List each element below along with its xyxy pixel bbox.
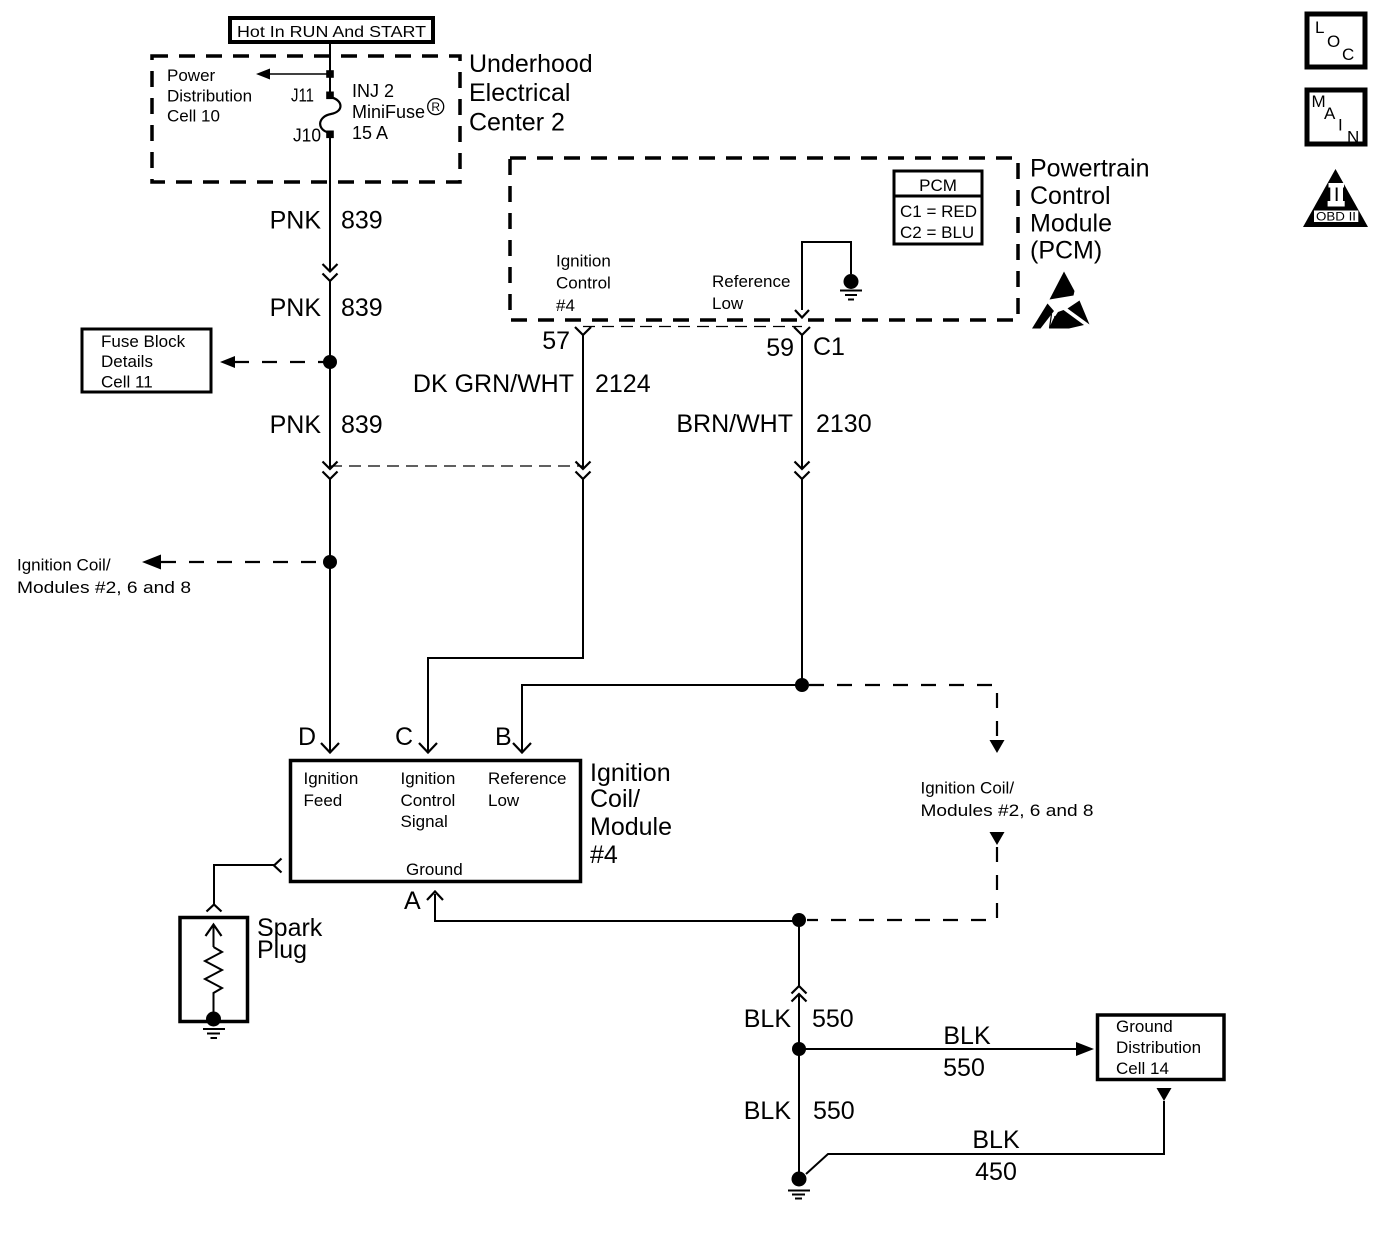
in-line connector on PNK wire: [323, 264, 338, 281]
svg-text:Low: Low: [488, 791, 520, 810]
svg-text:Electrical: Electrical: [469, 79, 570, 107]
svg-text:Control: Control: [401, 791, 456, 810]
label Spark Plug: [257, 914, 323, 964]
arrow inside spark plug: [206, 925, 222, 948]
fuse INJ 2 MiniFuse 15 A: [320, 97, 340, 133]
PCM connector legend box: [894, 171, 982, 244]
dashed connector line between PNK and DK GRN wires: [330, 465, 583, 467]
svg-text:839: 839: [341, 207, 383, 235]
svg-text:Ground: Ground: [1116, 1017, 1173, 1036]
label Ignition Coil Module #4: [590, 759, 672, 869]
wire spark plug feed from coil: [207, 859, 282, 912]
svg-text:#4: #4: [590, 841, 618, 869]
arrowhead into pin B: [513, 743, 531, 753]
svg-text:Ignition Coil/: Ignition Coil/: [17, 556, 111, 575]
label Ignition Coil Modules 2 6 and 8 (left): [17, 556, 191, 598]
svg-text:Cell 10: Cell 10: [167, 107, 220, 126]
wire arrow to Power Distribution Cell 10: [256, 69, 330, 80]
svg-text:O: O: [1327, 32, 1340, 51]
svg-text:BRN/WHT: BRN/WHT: [676, 410, 793, 438]
wire PNK 839 from fuse to connector: [329, 134, 331, 271]
svg-text:N: N: [1347, 128, 1359, 147]
svg-text:Ignition: Ignition: [304, 769, 359, 788]
label Reference Low pin: [712, 272, 790, 313]
dashed wire to Fuse Block Details: [220, 356, 326, 368]
arrowhead down (bottom): [990, 832, 1005, 845]
svg-text:Ignition Coil/: Ignition Coil/: [921, 779, 1015, 798]
pin label Reference Low: [488, 769, 566, 810]
svg-text:2124: 2124: [595, 370, 651, 398]
svg-text:#4: #4: [556, 296, 575, 315]
icon MAIN box: [1307, 90, 1365, 147]
svg-text:Underhood: Underhood: [469, 50, 593, 78]
arrowhead down (top): [990, 740, 1005, 753]
pin label Ignition Control Signal: [401, 769, 456, 831]
label PNK 839 (3): [270, 411, 383, 439]
wire PNK to ignition feed pin D: [329, 562, 331, 752]
svg-text:839: 839: [341, 294, 383, 322]
wire BLK 550 to Ground Distribution: [799, 1048, 1077, 1050]
wire DK GRN to pin C: [428, 479, 583, 752]
svg-text:839: 839: [341, 411, 383, 439]
power source box Hot In RUN And START: [230, 18, 433, 42]
wire reference low to pin B: [522, 685, 802, 752]
node bottom ground dot: [792, 1172, 807, 1187]
arrowhead into pin A: [427, 892, 443, 901]
svg-text:Distribution: Distribution: [1116, 1038, 1201, 1057]
label PCM legend text: [900, 176, 977, 242]
wire reference low internal hook: [802, 242, 851, 310]
svg-text:B: B: [495, 723, 512, 751]
svg-text:2130: 2130: [816, 410, 872, 438]
svg-text:59: 59: [766, 334, 794, 362]
wire ground pin A: [435, 894, 799, 921]
dashed connector line pin 57 to pin 59: [583, 326, 802, 328]
svg-text:C: C: [1342, 45, 1354, 64]
svg-text:15 A: 15 A: [352, 123, 388, 143]
svg-text:A: A: [404, 887, 421, 915]
pin J10: [326, 131, 334, 139]
Fuse Block Details Cell 11 box: [82, 329, 211, 392]
svg-text:57: 57: [542, 327, 570, 355]
Ignition Coil Module #4 box: [291, 761, 581, 882]
svg-text:Fuse Block: Fuse Block: [101, 332, 186, 351]
svg-text:J11: J11: [291, 86, 314, 106]
node junction ground wire: [792, 913, 806, 927]
svg-text:BLK: BLK: [972, 1126, 1020, 1154]
wire BLK 550 down from junction: [798, 920, 800, 986]
registered trademark circle R: [428, 99, 444, 115]
ground bottom: [788, 1191, 810, 1199]
label BLK 550 (1): [744, 1005, 854, 1033]
svg-text:Modules #2, 6 and 8: Modules #2, 6 and 8: [921, 801, 1094, 820]
svg-text:Reference: Reference: [712, 272, 790, 291]
icon ESD warning triangle: [1032, 272, 1090, 329]
Powertrain Control Module dashed box: [510, 158, 1018, 320]
node junction on PNK wire: [323, 355, 337, 369]
svg-text:OBD II: OBD II: [1316, 212, 1356, 224]
spark plug box: [180, 918, 248, 1022]
in-line connector row (BRN): [795, 462, 810, 480]
wire hot feed vertical into fuse: [329, 42, 331, 95]
wire BRN/WHT 2130: [801, 335, 803, 469]
svg-text:Ignition: Ignition: [590, 759, 671, 787]
svg-text:J10: J10: [293, 126, 321, 146]
svg-text:C1 = RED: C1 = RED: [900, 202, 977, 221]
Underhood Electrical Center 2 dashed box: [152, 56, 460, 182]
svg-text:550: 550: [813, 1097, 855, 1125]
label BRN/WHT 2130: [676, 410, 871, 438]
svg-text:Control: Control: [556, 274, 611, 293]
svg-text:550: 550: [943, 1054, 985, 1082]
svg-text:C1: C1: [813, 333, 845, 361]
svg-text:L: L: [1315, 18, 1324, 37]
svg-text:(PCM): (PCM): [1030, 237, 1102, 265]
label PNK 839 (2): [270, 294, 383, 322]
dashed wire continues to ground junction: [807, 847, 997, 920]
svg-text:A: A: [1324, 104, 1336, 123]
svg-text:DK GRN/WHT: DK GRN/WHT: [413, 370, 574, 398]
node power distribution tap J11 top: [326, 70, 334, 78]
pin J11: [326, 92, 334, 100]
svg-text:Power: Power: [167, 66, 216, 85]
svg-text:Low: Low: [712, 294, 744, 313]
svg-text:Distribution: Distribution: [167, 87, 252, 106]
pin 57 connector chevron: [575, 327, 591, 335]
label pin 59 C1: [766, 333, 845, 362]
icon OBD II triangle: [1303, 169, 1368, 227]
svg-text:Feed: Feed: [304, 791, 343, 810]
node spark plug ground dot: [206, 1012, 221, 1027]
label Fuse Block Details Cell 11: [101, 332, 186, 392]
pin label Ignition Feed: [304, 769, 359, 810]
svg-text:PNK: PNK: [270, 411, 322, 439]
svg-text:C2 = BLU: C2 = BLU: [900, 223, 974, 242]
dashed wire to Ignition Coil Modules 2 6 8 (left): [142, 555, 325, 570]
svg-text:BLK: BLK: [744, 1097, 792, 1125]
wire BLK to bottom ground: [798, 1049, 800, 1172]
svg-text:BLK: BLK: [943, 1022, 991, 1050]
svg-text:Modules #2, 6 and 8: Modules #2, 6 and 8: [17, 578, 191, 597]
resistor spark plug gap element: [205, 947, 222, 1015]
label BLK 550 horizontal: [943, 1022, 991, 1082]
label PNK 839 (1): [270, 207, 383, 235]
svg-text:D: D: [298, 723, 316, 751]
in-line connector row (DK GRN): [576, 462, 591, 480]
svg-text:Module: Module: [590, 813, 672, 841]
label BLK 550 (2): [744, 1097, 855, 1125]
svg-text:PNK: PNK: [270, 294, 322, 322]
wire BRN to junction: [801, 479, 803, 685]
dashed wire branch to other coil modules (right): [809, 685, 997, 738]
svg-text:Details: Details: [101, 352, 153, 371]
Ground Distribution Cell 14 box: [1098, 1015, 1225, 1080]
svg-text:BLK: BLK: [744, 1005, 792, 1033]
svg-text:Ignition: Ignition: [556, 252, 611, 271]
in-line connector (pointing up): [792, 986, 807, 1002]
ground inside PCM: [840, 274, 862, 300]
label Powertrain Control Module (PCM): [1030, 155, 1150, 265]
svg-text:Hot In RUN And START: Hot In RUN And START: [237, 24, 426, 41]
svg-text:Coil/: Coil/: [590, 785, 640, 813]
arrowhead into Ground Distribution: [1076, 1042, 1094, 1056]
in-line connector row (PNK): [323, 462, 338, 480]
label Ground Distribution Cell 14: [1116, 1017, 1201, 1078]
svg-text:Reference: Reference: [488, 769, 566, 788]
arrowhead up into Ground Distribution box: [1157, 1088, 1172, 1101]
wire BLK continues to junction: [798, 994, 800, 1049]
svg-text:Ignition: Ignition: [401, 769, 456, 788]
label Ignition Control #4 pin: [556, 252, 611, 316]
pin 59 connector chevron: [794, 327, 810, 335]
svg-text:PCM: PCM: [919, 176, 957, 195]
svg-text:R: R: [431, 100, 440, 114]
svg-text:MiniFuse: MiniFuse: [352, 102, 425, 122]
wire PNK 839 segment 2: [329, 281, 331, 469]
svg-text:Control: Control: [1030, 182, 1111, 210]
arrowhead into pin C: [419, 743, 437, 753]
arrowhead reference low to pin 59: [795, 310, 809, 318]
svg-text:Cell 14: Cell 14: [1116, 1059, 1169, 1078]
svg-text:Module: Module: [1030, 210, 1112, 238]
svg-text:450: 450: [975, 1158, 1017, 1186]
svg-text:Cell 11: Cell 11: [101, 373, 153, 392]
svg-text:C: C: [395, 723, 413, 751]
svg-text:Plug: Plug: [257, 936, 307, 964]
node junction on PNK wire at modules branch: [323, 555, 337, 569]
label DK GRN/WHT 2124: [413, 370, 651, 398]
arrowhead into pin D: [321, 743, 339, 753]
wire PNK continues to junction: [329, 479, 331, 562]
svg-text:PNK: PNK: [270, 207, 322, 235]
node junction BRN reference low: [795, 678, 809, 692]
svg-text:I: I: [1338, 116, 1343, 135]
ground below spark plug: [203, 1029, 225, 1038]
svg-text:Center 2: Center 2: [469, 109, 565, 137]
label Ignition Coil Modules 2 6 and 8 (right): [921, 779, 1094, 821]
label INJ 2 MiniFuse (R) 15 A: [352, 81, 425, 143]
svg-text:INJ 2: INJ 2: [352, 81, 394, 101]
svg-text:Ground: Ground: [406, 860, 463, 879]
icon LOC box: [1307, 14, 1365, 67]
node junction BLK: [792, 1042, 806, 1056]
svg-text:550: 550: [812, 1005, 854, 1033]
wire BLK 450 to Ground Distribution: [806, 1101, 1164, 1174]
wire DK GRN/WHT 2124: [582, 335, 584, 469]
label BLK 450: [972, 1126, 1020, 1186]
svg-text:Powertrain: Powertrain: [1030, 155, 1150, 183]
svg-text:Signal: Signal: [401, 812, 448, 831]
